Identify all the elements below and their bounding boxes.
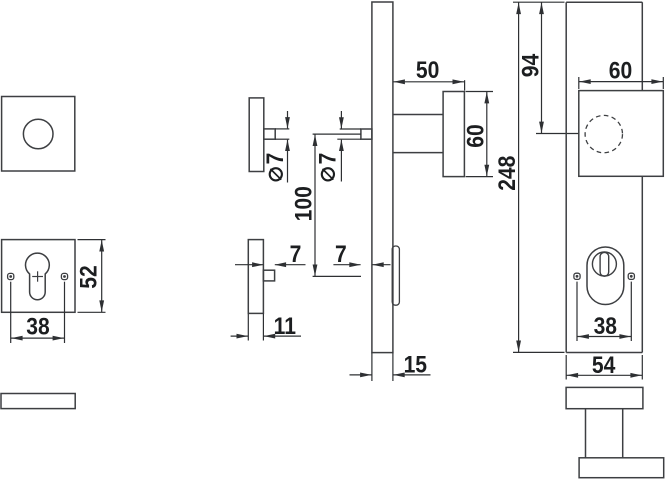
svg-text:248: 248 bbox=[494, 156, 521, 191]
square key rose, front view (lower-left) bbox=[2, 240, 75, 313]
dimension 60 (knob rose width) bbox=[579, 57, 664, 89]
knob neck side view bbox=[393, 115, 443, 153]
dimension 94 bbox=[517, 2, 578, 133]
dimension 52 bbox=[75, 240, 105, 313]
cylinder stub on key rose bbox=[263, 270, 274, 281]
svg-text:15: 15 bbox=[404, 351, 427, 378]
svg-text:7: 7 bbox=[314, 153, 341, 165]
dimension 15 bbox=[350, 351, 431, 381]
cylinder rosette bump side view bbox=[392, 246, 399, 305]
dimension Ø7 (rose spindle) bbox=[262, 111, 290, 183]
dimension 7 (plate stub) bbox=[333, 241, 390, 268]
svg-text:11: 11 bbox=[274, 313, 296, 340]
svg-text:60: 60 bbox=[609, 57, 632, 84]
svg-text:94: 94 bbox=[517, 53, 544, 77]
screw dot left (plate) bbox=[574, 273, 580, 279]
knob rose side view bar bbox=[249, 98, 264, 172]
centre cross mark bbox=[32, 271, 43, 281]
dimension 38 (left rose) bbox=[11, 282, 65, 343]
knob neck, bottom view bbox=[586, 409, 623, 458]
cylinder slot bbox=[600, 252, 609, 276]
svg-text:7: 7 bbox=[335, 241, 347, 268]
dimension 7 (rose stub) bbox=[235, 241, 306, 268]
knob rose, bottom view bbox=[579, 458, 664, 478]
security plate front view bbox=[566, 2, 642, 352]
spindle stub on plate bbox=[361, 129, 372, 139]
screw dot right (plate) bbox=[628, 273, 634, 279]
svg-text:7: 7 bbox=[290, 241, 302, 268]
spindle stub on rose bbox=[264, 129, 275, 139]
key rose side view bar bbox=[248, 240, 263, 314]
dimension 50 bbox=[393, 57, 464, 90]
dimension 54 bbox=[566, 352, 642, 380]
key rose side slab (bottom view) bbox=[1, 394, 75, 409]
dimension 100 bbox=[290, 134, 361, 276]
spindle hole (hidden) bbox=[585, 115, 622, 152]
svg-text:38: 38 bbox=[26, 313, 49, 340]
euro profile cylinder cut-out bbox=[26, 253, 50, 300]
svg-text:60: 60 bbox=[462, 124, 489, 147]
svg-text:100: 100 bbox=[290, 186, 317, 221]
dimension 11 bbox=[231, 313, 301, 340]
svg-text:50: 50 bbox=[416, 57, 439, 84]
square knob rose, front view (top-left) bbox=[2, 97, 75, 172]
svg-text:54: 54 bbox=[592, 352, 616, 379]
knob rose side view (60 high) bbox=[443, 92, 464, 177]
screw dot right bbox=[61, 273, 67, 279]
dimension 248 bbox=[494, 2, 565, 352]
oval security rosette bbox=[587, 247, 624, 305]
plate end, bottom view bbox=[566, 387, 643, 408]
knob rose front view bbox=[579, 91, 664, 177]
svg-text:52: 52 bbox=[75, 265, 102, 288]
screw dot left bbox=[8, 273, 14, 279]
cylinder cover disc bbox=[592, 252, 616, 276]
svg-text:38: 38 bbox=[594, 313, 617, 340]
svg-text:7: 7 bbox=[262, 153, 289, 165]
dimension 38 (plate screws) bbox=[577, 282, 631, 341]
security plate side view bbox=[372, 2, 393, 353]
dimension 60 (knob rose height) bbox=[462, 92, 493, 177]
dimension Ø7 (plate spindle) bbox=[314, 111, 361, 182]
